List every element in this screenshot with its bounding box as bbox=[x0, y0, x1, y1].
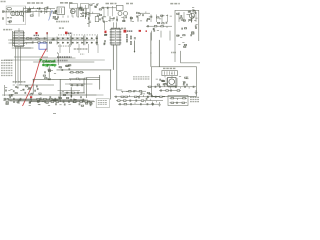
wire mix drop long bbox=[88, 12, 90, 27]
osc drop 1 bbox=[102, 16, 104, 21]
wire osc bus2 bbox=[22, 139, 100, 141]
tuning gang C1c bbox=[19, 12, 23, 16]
title IF AMP bbox=[60, 2, 73, 4]
green note line 1 bbox=[42, 60, 55, 64]
bottom row 7b bbox=[116, 99, 163, 103]
wire section left bbox=[32, 79, 34, 94]
res stack R11 bbox=[126, 39, 127, 42]
tuning gang C1b bbox=[15, 12, 19, 16]
wire supply bus bbox=[16, 167, 140, 169]
frequency table bbox=[1, 60, 13, 75]
bottom row Lb bbox=[30, 100, 95, 104]
output transformer box bbox=[162, 71, 177, 76]
supply drop b bbox=[160, 31, 162, 38]
res stack R12 bbox=[130, 36, 131, 39]
junction n16 bbox=[191, 21, 192, 22]
wire pot drop bbox=[48, 66, 50, 78]
power parts 2 bbox=[182, 24, 198, 29]
wire det drop 3 bbox=[78, 44, 80, 53]
wire AF top bus bbox=[73, 191, 152, 193]
osc top drop c bbox=[112, 8, 114, 16]
wire IF bus bbox=[17, 84, 54, 86]
volume row 1 bbox=[69, 72, 84, 73]
osc top drop b bbox=[107, 8, 109, 16]
wire drop rf5 bbox=[49, 12, 51, 17]
AGC ticks bbox=[153, 28, 159, 32]
wire section top bbox=[33, 78, 100, 80]
osc coil box bbox=[116, 5, 123, 10]
wire if drop a bbox=[85, 5, 87, 17]
wire drop rf1 bbox=[27, 9, 29, 12]
wire ant stub bbox=[2, 11, 32, 13]
wire IC D1 drop c bbox=[20, 47, 22, 84]
switch box 2 bbox=[80, 4, 88, 9]
junction n10 bbox=[150, 52, 151, 53]
red note a2 bbox=[46, 32, 48, 34]
diode labels top bbox=[58, 34, 98, 36]
junction n9 bbox=[134, 51, 135, 52]
wire if drop b bbox=[89, 6, 91, 17]
osc drop 2 bbox=[109, 16, 111, 21]
wire det drop 4 bbox=[88, 44, 90, 53]
AF left column bbox=[146, 92, 153, 100]
volume row 2 bbox=[69, 78, 87, 81]
mixer parts bbox=[90, 4, 102, 10]
wire pwr drop d bbox=[195, 12, 197, 22]
wire pwr drop c bbox=[188, 19, 190, 22]
bottom parts 5 bbox=[64, 97, 76, 105]
wire RF row1 bbox=[9, 42, 33, 44]
tuning cluster bbox=[5, 85, 41, 96]
wire det row1 bbox=[38, 99, 56, 101]
junction n1 bbox=[23, 16, 24, 17]
bottom row 7c bbox=[118, 102, 160, 105]
stylus pointer line bbox=[49, 10, 53, 21]
title UL label bbox=[126, 3, 134, 5]
parts below note c bbox=[104, 34, 107, 35]
top parts row b bbox=[24, 10, 56, 14]
wire IC D1 left bbox=[12, 31, 14, 47]
shield box bbox=[87, 77, 100, 98]
res stack R10 bbox=[126, 35, 127, 38]
label input coils bbox=[7, 17, 13, 19]
rectifier stack bbox=[188, 7, 195, 13]
bus tick 4 bbox=[72, 16, 74, 18]
caption det bbox=[59, 27, 64, 29]
wire IC D1 top stub bbox=[18, 28, 20, 31]
wire pwr drop b bbox=[183, 12, 185, 22]
switch drop 3 bbox=[82, 8, 84, 16]
junction n11 bbox=[60, 92, 61, 93]
left margin part b bbox=[3, 17, 4, 19]
label ANT bbox=[3, 29, 12, 31]
wire D2 out2 bbox=[117, 45, 122, 90]
wire antenna bus bbox=[22, 7, 24, 21]
switch drop 2 bbox=[76, 8, 78, 16]
wire AF bus bbox=[57, 70, 111, 100]
wire D2 stub b bbox=[116, 22, 118, 28]
wire bottom mid bbox=[62, 94, 104, 96]
transistor V2 bbox=[118, 12, 122, 16]
mixer bias parts bbox=[53, 14, 58, 20]
note b text bbox=[68, 32, 72, 34]
wire tone drop 1 bbox=[59, 79, 61, 102]
supply drop a bbox=[151, 31, 153, 41]
filter row 2 bbox=[25, 41, 47, 44]
left margin part a bbox=[3, 10, 4, 12]
bottom row 7a bbox=[114, 95, 165, 98]
wire det link bbox=[56, 37, 58, 45]
junction n8 bbox=[113, 44, 114, 45]
junction n7 bbox=[110, 69, 111, 70]
AF parts right bbox=[179, 76, 189, 85]
bottom parts 2 bbox=[14, 99, 21, 104]
transformer windings bbox=[165, 71, 175, 75]
band switch row bbox=[4, 10, 23, 12]
junction n5 bbox=[78, 16, 79, 17]
wire mid drop bbox=[46, 32, 48, 52]
wire bottom bus L2 bbox=[4, 59, 105, 61]
input coil L2 bbox=[8, 21, 12, 24]
tone row bbox=[70, 84, 84, 86]
top parts row a bbox=[24, 7, 55, 11]
title OSCILLATOR bbox=[106, 3, 117, 5]
wire mix drop 2 bbox=[85, 12, 87, 19]
green note line 2 bbox=[42, 63, 56, 67]
wire mix row 2 bbox=[8, 99, 86, 101]
filter parts row bbox=[121, 90, 146, 93]
wire power L bbox=[181, 51, 200, 63]
bottom parts 4 bbox=[46, 96, 62, 106]
note d text bbox=[127, 30, 133, 32]
osc parts bbox=[103, 16, 135, 21]
junction n4 bbox=[57, 52, 58, 53]
power box bbox=[175, 10, 199, 41]
green arrow bbox=[39, 59, 42, 62]
osc top row bbox=[101, 6, 116, 9]
IC A1 circle bbox=[169, 79, 175, 85]
osc top drop a bbox=[103, 8, 105, 16]
IF core 2 bbox=[84, 36, 85, 46]
red note b bbox=[65, 32, 68, 34]
bus tick 1 bbox=[57, 16, 59, 18]
junction n6 bbox=[85, 16, 86, 17]
wire RF row2 bbox=[12, 47, 31, 49]
bottom row La bbox=[3, 98, 60, 101]
volume pot parts bbox=[43, 69, 56, 80]
marked zone box bbox=[39, 43, 47, 49]
switch box 1 bbox=[70, 4, 78, 9]
junction n12 bbox=[83, 79, 84, 80]
det out parts bbox=[104, 40, 105, 45]
supply row low bbox=[146, 25, 172, 28]
ground sym 2 bbox=[158, 102, 161, 106]
reg parts below box bbox=[178, 42, 186, 47]
filter parts right bbox=[49, 38, 54, 43]
AF takeoff parts bbox=[59, 65, 71, 71]
filter rows bbox=[126, 90, 145, 98]
wire drop rf4 bbox=[44, 9, 46, 15]
wire D2 stub a bbox=[112, 22, 114, 28]
junction n14 bbox=[49, 69, 50, 70]
wire det row2 bbox=[43, 99, 56, 101]
power lower parts bbox=[177, 32, 194, 38]
tuning gang C1a bbox=[11, 12, 15, 16]
junction n13 bbox=[33, 79, 34, 80]
caption IF values bbox=[56, 21, 69, 23]
bottom parts 6 bbox=[79, 96, 92, 106]
wire bottom bus L bbox=[2, 94, 96, 96]
ferrite antenna L1 bbox=[7, 8, 12, 10]
IF transformer T1 bbox=[57, 7, 65, 15]
power bus 2 bbox=[31, 199, 168, 201]
speaker box bbox=[168, 96, 188, 106]
label det out small bbox=[80, 53, 84, 55]
wire pot row bbox=[42, 57, 76, 59]
AF parts left bbox=[156, 79, 167, 86]
note a text bbox=[34, 34, 40, 36]
cap C20 bbox=[134, 37, 135, 39]
ground sym 1 bbox=[151, 102, 154, 106]
caption AF section bbox=[133, 77, 150, 79]
speaker parts row b bbox=[170, 102, 188, 104]
red note e bbox=[139, 30, 141, 32]
junction n2 bbox=[47, 38, 48, 39]
wire drop rf2 bbox=[32, 12, 34, 17]
wire drop rf3 bbox=[38, 9, 40, 17]
wire filt bus 2 bbox=[98, 145, 108, 147]
red bottom note bbox=[30, 96, 32, 98]
mix row parts bbox=[80, 12, 100, 16]
osc drop 3 bbox=[116, 16, 118, 21]
wire tuning bus 2 bbox=[8, 39, 95, 41]
wire IC D1 drop a bbox=[15, 47, 17, 84]
supply tick 3 bbox=[161, 15, 163, 23]
wire osc drop M3 bbox=[104, 22, 106, 30]
wire right drop 2 bbox=[158, 40, 160, 67]
wire filt bus 1 bbox=[95, 145, 108, 147]
caption IF path bbox=[74, 48, 88, 50]
input section box bbox=[6, 6, 26, 25]
wire tone drop 2 bbox=[70, 87, 72, 98]
IC D1 bbox=[13, 31, 25, 47]
wire AF low bus bbox=[89, 191, 150, 193]
het coupling parts bbox=[102, 17, 106, 23]
IC A1 pin ticks bbox=[169, 86, 175, 88]
switch drop 4 bbox=[86, 8, 88, 16]
wire vol row 1 bbox=[69, 83, 71, 85]
bottom parts 3 bbox=[29, 98, 44, 106]
wire mix link bbox=[11, 100, 95, 102]
detector diode row 2 bbox=[58, 42, 98, 44]
tone parts low bbox=[65, 92, 84, 94]
wire shield drop bbox=[99, 75, 101, 90]
wire det out bbox=[58, 90, 81, 92]
wire xfmr drop 1 bbox=[164, 76, 166, 78]
RF stage C3 bbox=[46, 6, 48, 8]
supply parts left bbox=[157, 15, 172, 24]
wire right drop 1 bbox=[150, 33, 152, 67]
junction dot bbox=[134, 51, 135, 52]
IF stage parts bbox=[79, 7, 84, 17]
speaker parts row a bbox=[170, 98, 188, 101]
junction n15 bbox=[171, 73, 172, 74]
res stack R13 bbox=[130, 42, 131, 45]
osc bus bbox=[16, 139, 100, 141]
transistor V1 bbox=[70, 9, 75, 14]
het coupling box bbox=[95, 16, 99, 21]
RF stage R2 bbox=[30, 15, 33, 16]
red note d bbox=[124, 30, 127, 33]
wire pwr drop a bbox=[178, 12, 180, 22]
wire bottom bus R bbox=[96, 187, 115, 189]
het right row bbox=[139, 11, 150, 15]
IC D2 bbox=[110, 29, 122, 46]
title POWER UNIT bbox=[170, 3, 180, 5]
RF stack C4 bbox=[53, 10, 58, 18]
transistor V4 bbox=[189, 13, 194, 18]
caption det vals bbox=[58, 45, 71, 47]
AF module box bbox=[152, 67, 197, 97]
IF core 3 bbox=[96, 36, 97, 46]
wire if bus 2 bbox=[17, 99, 85, 101]
red note a bbox=[36, 32, 38, 34]
ground sym 3 bbox=[195, 90, 198, 94]
sheet corner note bbox=[1, 1, 7, 3]
wire rect drop bbox=[191, 14, 193, 22]
supply feed bbox=[147, 16, 152, 22]
power bus 1 bbox=[22, 198, 168, 200]
wire top bus c bbox=[14, 56, 48, 58]
osc right parts bbox=[136, 12, 151, 21]
wire tone bottom bbox=[60, 92, 85, 94]
bus tick 2 bbox=[62, 16, 64, 18]
detector diode row 1 bbox=[58, 38, 98, 40]
bus tick 3 bbox=[67, 16, 69, 18]
parts below IC A1 bbox=[159, 89, 181, 91]
caption heterodyne bbox=[111, 27, 126, 29]
wire power drop bbox=[174, 41, 176, 62]
wire R13 drop bbox=[134, 41, 136, 53]
junction n3 bbox=[47, 42, 48, 43]
wire tuning bus bbox=[10, 39, 88, 41]
stamp text bbox=[98, 101, 107, 105]
wire af takeoff bbox=[58, 53, 60, 65]
supply drop c bbox=[169, 31, 171, 41]
red note c bbox=[104, 31, 106, 33]
wire det drop 5 bbox=[97, 44, 99, 53]
cap mix drop bbox=[88, 17, 89, 19]
wire xfmr drop 2 bbox=[171, 76, 173, 78]
note 4x bbox=[171, 52, 176, 54]
RF node dots bbox=[37, 8, 40, 9]
bottom right note bbox=[190, 97, 199, 101]
filter row 1 bbox=[25, 37, 47, 40]
wire mid bus bbox=[53, 113, 56, 115]
wire det drop 1 bbox=[59, 44, 61, 53]
switch drop 1 bbox=[71, 8, 73, 16]
mixer left parts bbox=[97, 14, 101, 20]
label AF amp bbox=[163, 67, 176, 69]
wire tuning row bbox=[12, 37, 84, 39]
stamp box bbox=[96, 99, 109, 108]
IC amplifier A1 bbox=[168, 78, 177, 87]
osc drop 6 bbox=[137, 16, 139, 21]
wire mix row 1 bbox=[5, 99, 88, 101]
wire det drop 2 bbox=[69, 44, 71, 53]
supply tick 1 bbox=[150, 15, 152, 23]
transistor V3 bbox=[124, 12, 128, 16]
wire IC D1 drop b bbox=[17, 47, 19, 84]
RF stage R1 bbox=[28, 11, 31, 12]
wire D2 out1 bbox=[112, 45, 114, 70]
transistor V1 leads bbox=[71, 10, 75, 12]
wire tone bus bbox=[52, 99, 83, 101]
wire tone drop 3 bbox=[83, 79, 85, 93]
IC A1 pins bbox=[166, 79, 179, 85]
caption tuning bbox=[13, 81, 26, 83]
mix drop parts bbox=[87, 21, 91, 23]
RF stage C2 bbox=[28, 8, 34, 10]
AF pins row bbox=[147, 85, 196, 89]
label cluster det out 2 bbox=[58, 59, 68, 61]
wire V1 collector bbox=[77, 7, 79, 18]
supply tick 4 bbox=[167, 15, 169, 23]
wire tone low bbox=[65, 83, 93, 85]
wire RF row3 bbox=[16, 47, 34, 49]
wire tuning left bbox=[4, 85, 6, 96]
power parts bbox=[177, 11, 198, 22]
red note f bbox=[146, 30, 148, 32]
osc drop 5 bbox=[130, 16, 132, 21]
supply tick 2 bbox=[156, 15, 158, 23]
bottom parts 1 bbox=[3, 96, 11, 104]
label cluster det out bbox=[57, 56, 72, 58]
osc drop 4 bbox=[123, 16, 125, 21]
IF core 1 bbox=[70, 36, 71, 46]
annotation leader line bbox=[23, 49, 47, 106]
wire tone row bbox=[70, 83, 85, 85]
wire section bottom bbox=[33, 61, 94, 63]
title INPUT UNIT bbox=[27, 2, 43, 4]
tone parts low b bbox=[61, 92, 72, 97]
